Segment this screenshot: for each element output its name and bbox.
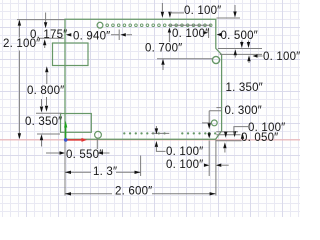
svg-text:0. 050″: 0. 050″ <box>241 132 278 144</box>
svg-text:0. 300″: 0. 300″ <box>225 105 262 117</box>
dimension 0.550 <box>46 152 60 154</box>
dimension 0.100 hole pitch <box>168 24 211 26</box>
svg-text:0. 100″: 0. 100″ <box>166 146 203 158</box>
top row of small holes <box>106 24 212 27</box>
dimension 0.940 <box>66 33 72 36</box>
svg-text:1. 350″: 1. 350″ <box>226 82 263 94</box>
svg-text:1. 3″: 1. 3″ <box>93 166 117 178</box>
extension tick hole center right lower <box>202 122 211 124</box>
dimension 0.100 bottom edge to holes <box>152 132 170 134</box>
svg-text:0. 350″: 0. 350″ <box>25 116 62 128</box>
svg-text:0. 500″: 0. 500″ <box>221 30 258 42</box>
svg-text:0. 100″: 0. 100″ <box>172 28 209 40</box>
dimension 0.050 cluster <box>216 132 242 141</box>
hole big top-left <box>97 22 103 28</box>
dimension 0.100 right step <box>247 55 250 61</box>
corner extension lines bottom-right <box>209 111 221 124</box>
hole bottom-left on edge <box>95 131 102 138</box>
plate outline <box>65 19 222 139</box>
pocket rectangle upper-left <box>53 43 89 66</box>
bottom row of small holes <box>123 132 216 134</box>
dimension 2.100 left <box>17 20 65 138</box>
origin X axis red arrow <box>66 139 82 141</box>
dimension 1.3 <box>65 156 141 177</box>
dimension 0.500 <box>217 33 222 36</box>
svg-text:0. 800″: 0. 800″ <box>27 85 64 97</box>
X axis line <box>0 139 300 141</box>
svg-text:0. 175″: 0. 175″ <box>30 29 67 41</box>
dimension 0.175 <box>45 13 47 24</box>
svg-text:2. 600″: 2. 600″ <box>115 186 152 198</box>
svg-text:0. 550″: 0. 550″ <box>66 149 103 161</box>
top-right extension line <box>217 17 241 19</box>
dimension 2.600 <box>65 193 216 195</box>
svg-text:0. 100″: 0. 100″ <box>263 51 300 63</box>
extension tick 0.300 <box>216 107 222 109</box>
leader 0.100 right-bottom <box>234 127 248 135</box>
svg-text:0. 100″: 0. 100″ <box>184 5 221 17</box>
dimension 0.800 <box>45 66 48 72</box>
dimension 0.100 top edge to holes <box>161 3 163 12</box>
pocket rectangle lower-left <box>61 114 92 133</box>
dimension value labels <box>3 5 300 198</box>
origin Y axis green arrow <box>65 128 67 140</box>
svg-text:0. 940″: 0. 940″ <box>73 31 110 43</box>
hole right upper <box>212 56 219 63</box>
dimension 0.700 <box>157 58 212 60</box>
dimension 0.100 bottom pitch <box>204 164 210 167</box>
svg-text:0. 100″: 0. 100″ <box>166 159 203 171</box>
dimension 0.350 <box>36 97 62 113</box>
hole right lower <box>211 120 217 126</box>
svg-text:0. 700″: 0. 700″ <box>145 43 182 55</box>
origin point blue <box>64 138 68 142</box>
